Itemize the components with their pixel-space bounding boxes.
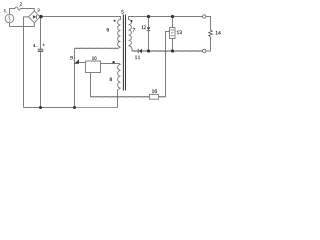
svg-text:16: 16	[152, 89, 158, 95]
junction node regulator bottom	[171, 49, 174, 52]
regulator box (13)	[170, 28, 176, 39]
wire snubber diode branch	[148, 17, 150, 52]
svg-text:4: 4	[33, 43, 36, 48]
aux winding polarity dot	[112, 61, 114, 63]
wire secondary top lead to output terminal	[129, 17, 203, 20]
svg-text:14: 14	[215, 31, 221, 37]
wire AC source bottom lead to bridge bottom vertex	[10, 23, 35, 27]
svg-text:10: 10	[92, 57, 97, 62]
output diode D2 (11)	[138, 49, 142, 54]
junction node snubber bottom	[147, 49, 150, 52]
wire bottom rail right	[75, 107, 118, 109]
label 2 leader	[19, 6, 20, 7]
primary polarity dot	[114, 20, 116, 22]
bridge rectifier (3) diamond	[29, 11, 41, 23]
feedback resistor box (16)	[150, 94, 159, 99]
svg-text:8: 8	[110, 77, 113, 83]
svg-text:2: 2	[20, 1, 22, 6]
wire fuse to bridge top vertex	[20, 9, 34, 12]
wire top terminal to load resistor	[206, 17, 210, 31]
svg-text:5: 5	[121, 10, 124, 16]
junction node regulator top	[171, 15, 174, 18]
junction node rail emitter	[73, 106, 76, 109]
junction node rail cap	[39, 106, 42, 109]
label 1 leader	[6, 12, 7, 13]
svg-text:1: 1	[4, 8, 6, 13]
plus polarity mark	[42, 44, 44, 46]
wire controller bottom pin feedback line	[90, 73, 93, 97]
regulator box inner ticks	[170, 30, 174, 36]
wire transistor base to controller box	[79, 62, 86, 64]
output terminal top	[203, 15, 206, 18]
label 13 leader	[175, 31, 176, 33]
wire switch vertical collector-emitter	[74, 48, 76, 107]
aux winding (8)	[118, 65, 121, 89]
svg-text:12: 12	[141, 26, 146, 31]
wire bulk cap branch lower	[40, 52, 42, 108]
snubber diode (12)	[147, 27, 151, 31]
svg-text:9: 9	[70, 55, 73, 61]
svg-text:13: 13	[177, 30, 183, 36]
wire aux winding bottom lead	[118, 88, 121, 108]
output terminal bottom	[203, 49, 206, 52]
wire controller box right pin to aux winding	[101, 64, 121, 65]
svg-text:6: 6	[107, 27, 110, 33]
wire bridge minus output riser to bottom rail	[24, 17, 29, 108]
wire AC source top lead	[10, 9, 16, 15]
fuse F1 (2) squiggle	[15, 7, 20, 10]
wire regulator box top and bottom pins	[172, 17, 174, 52]
controller IC box U1 (10)	[86, 61, 101, 73]
wire bottom rail left	[24, 107, 75, 109]
primary winding (6)	[118, 20, 121, 48]
secondary winding (7)	[129, 20, 132, 46]
secondary polarity dot	[131, 20, 133, 22]
svg-text:3: 3	[37, 7, 40, 12]
wire feedback resistor to regulator box	[159, 95, 166, 98]
wire load resistor bottom to bottom terminal	[206, 37, 210, 51]
bridge diode symbol	[33, 15, 37, 19]
wire bulk cap branch upper	[40, 17, 42, 50]
transformer core (5)	[123, 15, 125, 91]
svg-text:11: 11	[135, 55, 141, 61]
capacitor C1 (4) plates	[38, 49, 44, 52]
wire secondary bottom to terminal	[142, 50, 202, 53]
load resistor R1 (14) zigzag	[209, 30, 213, 37]
label 9 leader	[73, 60, 74, 61]
label 3 leader	[36, 12, 37, 13]
wire primary bottom lead to switch	[118, 47, 121, 48]
junction node snubber top	[147, 15, 150, 18]
wire top rail bridge plus output to transformer primary	[40, 17, 120, 20]
AC source G1 (1)	[5, 14, 14, 23]
label 4 leader	[36, 45, 38, 47]
transistor Q1 (9) arrow	[74, 59, 79, 63]
junction node bridge output	[39, 15, 42, 18]
wire secondary bottom lead	[129, 46, 133, 52]
svg-text:7: 7	[133, 29, 136, 34]
